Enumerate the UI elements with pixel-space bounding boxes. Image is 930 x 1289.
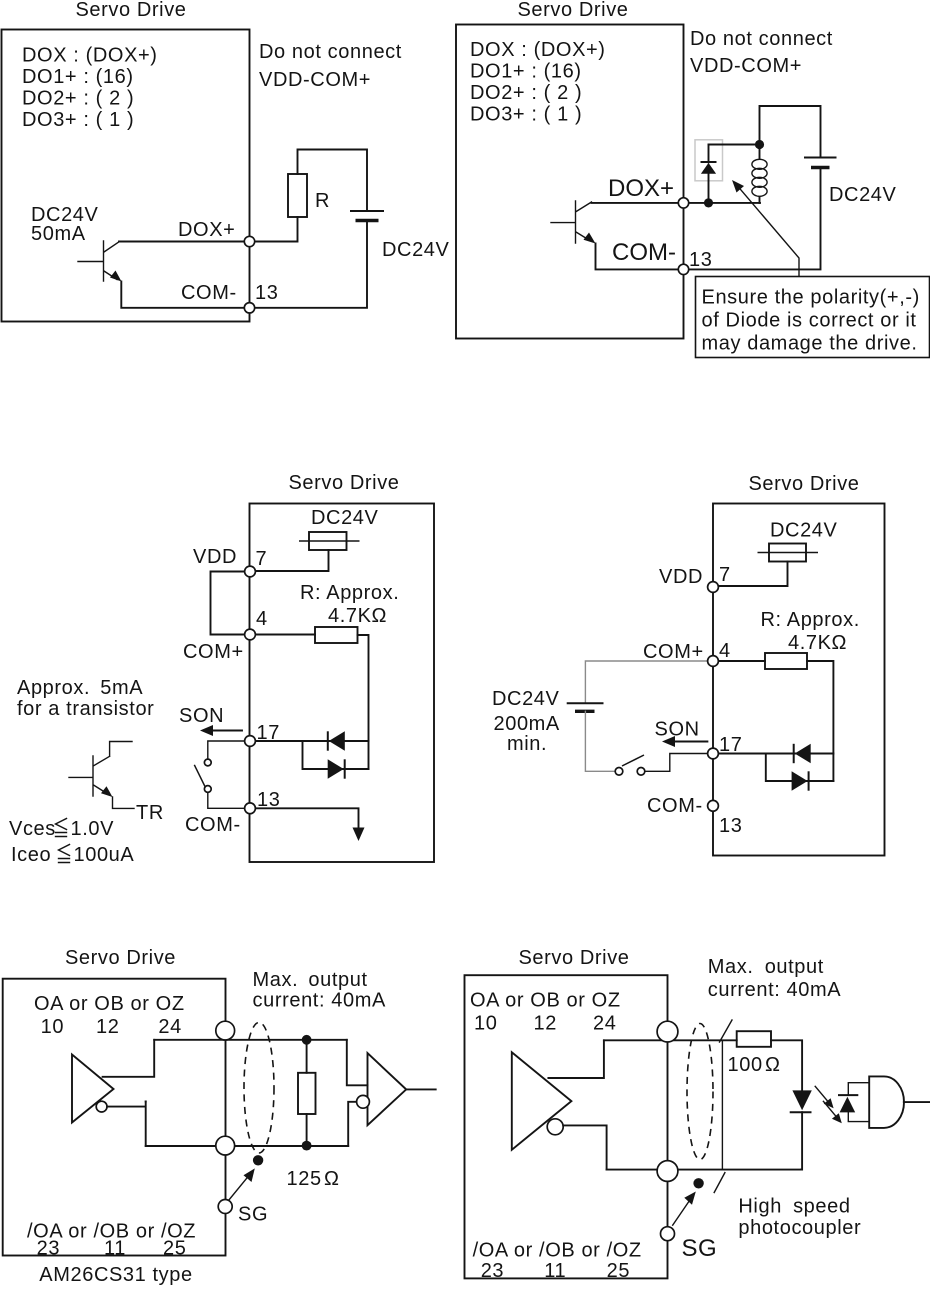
svg-text:SG: SG — [682, 1235, 718, 1262]
svg-text:OA or OB or OZ: OA or OB or OZ — [34, 993, 185, 1015]
wire U1 inverted output to bottom wire — [107, 1102, 146, 1147]
svg-text:DO2+ : ( 2 ): DO2+ : ( 2 ) — [470, 82, 582, 104]
svg-text:DOX+: DOX+ — [178, 219, 235, 241]
node 4 COM+ — [708, 656, 719, 667]
svg-text:DO1+ : (16): DO1+ : (16) — [22, 66, 134, 88]
wire collector to DOX+ node — [592, 202, 679, 204]
svg-text:COM+: COM+ — [183, 641, 244, 663]
svg-text:200mA: 200mA — [494, 713, 560, 735]
svg-text:1.0V: 1.0V — [71, 818, 115, 840]
bottom wire to right vertical — [146, 1145, 349, 1147]
light arrow 1 — [815, 1086, 828, 1102]
svg-text:12: 12 — [96, 1016, 119, 1038]
photocoupler top wire from node 17 — [256, 740, 369, 742]
svg-text:High speed: High speed — [738, 1196, 850, 1218]
shield dot — [253, 1155, 263, 1165]
transistor Q1 — [78, 241, 119, 281]
wire U3 output to top wire — [548, 1040, 604, 1078]
diode D5 (points right) — [792, 771, 808, 790]
wire battery to COM- node — [689, 170, 821, 270]
svg-text:DOX : (DOX+): DOX : (DOX+) — [470, 39, 606, 61]
switch SW1 — [204, 759, 211, 766]
transistor Q1 emitter arrowhead — [110, 271, 122, 282]
arrow SON left — [207, 730, 242, 732]
diode D3 (points right) — [328, 759, 344, 778]
SG arrow to shield dot — [673, 1200, 690, 1225]
svg-text:Max. output: Max. output — [708, 956, 824, 978]
photodiode D7 (points up) — [840, 1097, 856, 1113]
wire resistor bottom to dot — [306, 1114, 308, 1146]
svg-text:COM-: COM- — [185, 814, 241, 836]
svg-text:photocoupler: photocoupler — [738, 1217, 861, 1239]
SG node — [218, 1200, 232, 1214]
svg-text:COM+: COM+ — [643, 641, 704, 663]
diode D4 (points left) — [795, 744, 811, 763]
wire U1 output to top wire — [103, 1040, 155, 1077]
svg-text:10: 10 — [41, 1016, 64, 1038]
wire coil top to battery — [760, 106, 821, 157]
wire diode top to coil top dot — [709, 144, 760, 146]
svg-text:DO1+ : (16): DO1+ : (16) — [470, 61, 582, 83]
transistor TR — [69, 742, 132, 797]
svg-text:100 Ω: 100 Ω — [728, 1054, 781, 1076]
svg-text:23: 23 — [37, 1238, 60, 1260]
svg-text:DC24V: DC24V — [770, 520, 838, 542]
node 4 COM+ — [245, 629, 256, 640]
wire emitter to COM- node — [596, 244, 679, 270]
svg-text:Vces: Vces — [9, 818, 56, 840]
diode D1 (points up) — [708, 145, 710, 199]
svg-text:DC24V: DC24V — [382, 239, 450, 261]
svg-text:4.7KΩ: 4.7KΩ — [328, 605, 387, 627]
wire COM+ node to resistor — [256, 634, 316, 636]
bottom node circle — [657, 1161, 678, 1182]
wire dot to resistor top — [306, 1040, 308, 1073]
wire emitter to COM- — [121, 282, 244, 308]
line driver U1 — [72, 1055, 114, 1123]
svg-text:4.7KΩ: 4.7KΩ — [788, 632, 847, 654]
cable vertical line — [721, 1040, 723, 1169]
top wire to 100 ohm — [604, 1039, 737, 1041]
svg-text:13: 13 — [255, 282, 278, 304]
svg-text:Servo Drive: Servo Drive — [75, 0, 186, 21]
transistor Q2 emitter arrowhead — [584, 233, 596, 244]
svg-text:VDD: VDD — [659, 566, 703, 588]
svg-text:of Diode is correct or it: of Diode is correct or it — [702, 310, 917, 332]
svg-text:24: 24 — [158, 1016, 181, 1038]
wire U3 inverted output to bottom wire — [563, 1125, 606, 1169]
svg-text:may damage the drive.: may damage the drive. — [702, 333, 918, 355]
node 13 COM- — [245, 803, 256, 814]
svg-text:Do not connect: Do not connect — [690, 28, 833, 50]
battery B2 DC24V — [804, 157, 837, 159]
servo drive box 4 — [713, 504, 885, 856]
svg-text:COM-: COM- — [181, 282, 237, 304]
svg-text:Iceo: Iceo — [11, 844, 51, 866]
wire resistor top to battery — [298, 150, 368, 211]
svg-text:13: 13 — [719, 815, 742, 837]
wire switch to node 17 — [645, 754, 708, 772]
svg-text:OA or OB or OZ: OA or OB or OZ — [470, 989, 621, 1011]
svg-text:13: 13 — [689, 249, 712, 271]
wire fuse to VDD node — [719, 562, 788, 587]
svg-text:SG: SG — [238, 1204, 268, 1226]
junction dot at diode bottom — [704, 198, 713, 207]
battery B3 DC24V — [567, 702, 604, 704]
wire battery to COM- node — [255, 223, 368, 308]
wire resistor to LED — [771, 1040, 802, 1090]
svg-text:10: 10 — [474, 1012, 497, 1034]
gray box around diode — [695, 140, 723, 181]
servo drive box 1 — [2, 30, 250, 322]
wire fuse to VDD node — [256, 550, 329, 571]
svg-text:current: 40mA: current: 40mA — [253, 990, 386, 1012]
svg-text:7: 7 — [719, 564, 731, 586]
svg-text:Servo Drive: Servo Drive — [65, 947, 176, 969]
node COM- 13 — [678, 264, 688, 274]
bottom wire — [607, 1169, 801, 1171]
resistor R6 100 ohm — [737, 1031, 771, 1047]
svg-text:Servo Drive: Servo Drive — [517, 0, 628, 21]
node 7 VDD — [245, 566, 256, 577]
wire battery to switch — [585, 711, 615, 771]
wire DOX+ node to resistor R — [255, 217, 298, 242]
U1 inverting bubble — [96, 1101, 107, 1112]
leq-equal symbol 2 — [59, 845, 70, 863]
diode D2 (points left) — [329, 731, 345, 750]
svg-text:11: 11 — [544, 1260, 566, 1282]
U2 inverting bubble — [357, 1095, 370, 1108]
top node circle (tangent above wire) — [216, 1021, 235, 1040]
resistor R3 4.7K — [315, 627, 358, 643]
svg-text:DO3+ : ( 1 ): DO3+ : ( 1 ) — [22, 109, 134, 131]
svg-text:DOX : (DOX+): DOX : (DOX+) — [22, 45, 158, 67]
svg-text:Servo Drive: Servo Drive — [518, 947, 629, 969]
svg-text:7: 7 — [256, 548, 268, 570]
svg-text:12: 12 — [534, 1012, 557, 1034]
U3 inverting bubble — [547, 1119, 563, 1135]
svg-text:11: 11 — [104, 1238, 126, 1260]
U2 output line — [406, 1088, 436, 1090]
svg-text:VDD-COM+: VDD-COM+ — [690, 55, 802, 77]
light arrow 2 — [823, 1101, 836, 1117]
wire LED to bottom wire — [801, 1112, 802, 1169]
wire collector to DOX+ node — [119, 241, 245, 243]
photocoupler lower loop — [303, 741, 369, 769]
shield dashed ellipse — [687, 1024, 713, 1160]
gate output line — [904, 1101, 930, 1103]
svg-text:COM-: COM- — [612, 239, 676, 266]
wire COM+ node to resistor — [719, 660, 766, 662]
receiver gate (D shape) — [869, 1076, 904, 1128]
svg-text:VDD: VDD — [193, 546, 237, 568]
svg-text:current: 40mA: current: 40mA — [708, 979, 841, 1001]
svg-text:SON: SON — [655, 719, 700, 741]
wire resistor to right vertical — [358, 635, 369, 769]
note box: diode polarity warning — [696, 277, 930, 358]
svg-text:min.: min. — [507, 733, 547, 755]
servo drive box 6 — [465, 975, 668, 1278]
svg-text:DOX+: DOX+ — [608, 175, 674, 202]
svg-text:125 Ω: 125 Ω — [287, 1168, 340, 1190]
leq-equal symbol 1 — [56, 819, 67, 837]
transistor Q2 — [551, 201, 592, 243]
resistor R — [288, 174, 307, 217]
svg-text:50mA: 50mA — [31, 223, 86, 245]
photocoupler lower loop — [766, 754, 834, 782]
junction dot top of 125 ohm — [302, 1035, 312, 1045]
svg-text:Servo Drive: Servo Drive — [748, 473, 859, 495]
wire resistor to right vertical — [807, 661, 833, 781]
svg-text:/OA or /OB or /OZ: /OA or /OB or /OZ — [473, 1240, 642, 1262]
cable slash top — [720, 1020, 733, 1042]
LED D6 (points down) — [792, 1090, 811, 1110]
top wire to right vertical — [154, 1039, 347, 1041]
svg-text:R: Approx.: R: Approx. — [761, 609, 860, 631]
bottom node circle (on wire) — [216, 1136, 235, 1155]
wire VDD loop to COM+ — [211, 572, 245, 635]
wire COM+ node left to battery — [585, 661, 707, 703]
svg-text:Ensure the polarity(+,-): Ensure the polarity(+,-) — [702, 287, 920, 309]
receiver U2 triangle — [368, 1053, 407, 1125]
svg-text:AM26CS31 type: AM26CS31 type — [39, 1264, 192, 1286]
top node circle — [657, 1021, 678, 1042]
svg-text:TR: TR — [136, 802, 164, 824]
svg-text:DO3+ : ( 1 ): DO3+ : ( 1 ) — [470, 104, 582, 126]
wire switch to COM- node — [208, 793, 245, 809]
servo drive box 5 — [3, 979, 226, 1256]
arrow from note box to diode/coil — [735, 183, 799, 277]
fuse F1 — [309, 532, 347, 550]
shield dashed ellipse — [244, 1022, 274, 1153]
svg-text:VDD-COM+: VDD-COM+ — [259, 69, 371, 91]
svg-text:DO2+ : ( 2 ): DO2+ : ( 2 ) — [22, 88, 134, 110]
SG node — [661, 1227, 675, 1241]
svg-text:25: 25 — [163, 1238, 186, 1260]
shield dot — [693, 1178, 703, 1188]
svg-text:4: 4 — [256, 608, 268, 630]
svg-text:25: 25 — [607, 1260, 630, 1282]
node 13 COM- — [708, 800, 719, 811]
svg-text:DC24V: DC24V — [311, 507, 379, 529]
node 17 SON — [245, 736, 256, 747]
SG arrow to shield dot — [229, 1174, 251, 1200]
svg-text:R: R — [315, 190, 330, 212]
photodiode stubs to gate — [848, 1083, 869, 1122]
coil L1 (relay) — [759, 145, 761, 160]
servo drive box 2 — [456, 25, 684, 339]
wire node13 right with down arrow — [256, 808, 359, 830]
wire DOX+ node to coil bottom — [689, 202, 760, 204]
arrow SON left — [669, 741, 707, 743]
junction dot bottom of 125 ohm — [302, 1141, 312, 1151]
fuse F2 — [769, 544, 806, 562]
right vertical wires to receiver U2 — [347, 1040, 368, 1146]
battery B1 DC24V — [350, 210, 384, 212]
svg-text:Approx. 5mA: Approx. 5mA — [17, 677, 143, 699]
svg-text:for a transistor: for a transistor — [17, 698, 154, 720]
svg-text:R: Approx.: R: Approx. — [300, 582, 399, 604]
svg-text:Servo Drive: Servo Drive — [288, 472, 399, 494]
svg-text:SON: SON — [179, 705, 224, 727]
node 17 SON — [708, 748, 719, 759]
svg-text:4: 4 — [719, 640, 731, 662]
resistor R5 125 ohm — [298, 1073, 316, 1114]
svg-text:DC24V: DC24V — [492, 688, 560, 710]
cable slash bottom — [714, 1173, 725, 1193]
svg-text:DC24V: DC24V — [829, 184, 897, 206]
junction dot coil top — [755, 140, 764, 149]
node 7 VDD — [708, 582, 719, 593]
node DOX+ — [244, 236, 254, 246]
line driver U3 — [512, 1052, 572, 1150]
photocoupler top wire from node 17 — [719, 753, 834, 755]
svg-text:Max. output: Max. output — [253, 969, 368, 991]
switch SW2 — [615, 768, 623, 776]
svg-text:Do not connect: Do not connect — [259, 41, 402, 63]
resistor R4 4.7K — [765, 653, 807, 669]
svg-text:23: 23 — [481, 1260, 504, 1282]
wire node17 to switch — [208, 741, 245, 759]
node DOX+ — [678, 198, 688, 208]
svg-text:COM-: COM- — [647, 795, 703, 817]
svg-text:100uA: 100uA — [74, 844, 135, 866]
node COM- 13 — [244, 303, 254, 313]
servo drive box 3 — [250, 504, 435, 863]
svg-text:24: 24 — [593, 1012, 616, 1034]
